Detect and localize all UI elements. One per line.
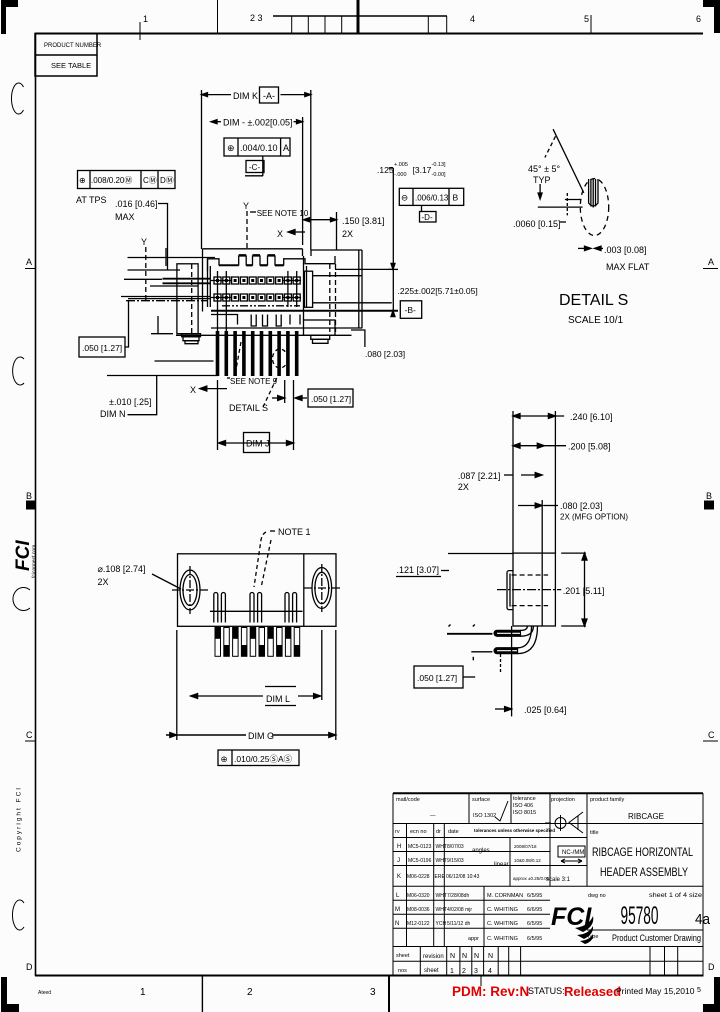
right key block [304, 271, 312, 307]
svg-text:WHT: WHT [436, 893, 447, 899]
right foot [304, 320, 336, 335]
svg-text:NC-/MM: NC-/MM [562, 850, 584, 856]
svg-text:C. WHITING: C. WHITING [487, 921, 518, 927]
svg-text:.080 [2.03]: .080 [2.03] [560, 501, 603, 511]
svg-text:MC5-0196: MC5-0196 [408, 858, 432, 864]
feature control frame .004/0.10 A [224, 138, 290, 156]
svg-text:dr: dr [436, 829, 441, 835]
left margin zone letters and ticks [26, 257, 33, 972]
phi .108 label [98, 564, 146, 587]
svg-text:C. WHITING: C. WHITING [487, 907, 518, 913]
svg-text:B: B [706, 491, 712, 501]
svg-text:.150 [3.81]: .150 [3.81] [342, 216, 385, 226]
svg-text:C: C [708, 730, 715, 740]
svg-text:SEE NOTE 9: SEE NOTE 9 [230, 377, 278, 386]
row 1 and row 2 squares [232, 277, 283, 301]
.087 dim [458, 471, 501, 492]
position frame below [218, 750, 299, 766]
svg-text:4a: 4a [695, 911, 711, 928]
dim L [176, 630, 178, 740]
.050 box lower [414, 666, 463, 688]
inner wall left double [207, 259, 209, 307]
svg-text:title: title [590, 830, 599, 836]
svg-text:06/12/08 10:43: 06/12/08 10:43 [446, 874, 480, 880]
svg-text:3: 3 [474, 968, 478, 975]
svg-text:1: 1 [140, 987, 146, 998]
svg-text:N: N [395, 921, 399, 927]
svg-text:ecn no: ecn no [410, 829, 427, 835]
svg-text:sheet: sheet [396, 953, 410, 959]
castellated top inner profile [208, 256, 336, 271]
board lock tab [507, 571, 513, 610]
svg-text:X: X [277, 229, 283, 239]
svg-text:fciconnect.com: fciconnect.com [32, 545, 38, 578]
through-hole pins below body [216, 331, 299, 376]
svg-text:N: N [450, 953, 455, 960]
svg-text:5/11/12 dh: 5/11/12 dh [447, 921, 470, 927]
svg-text:C: C [26, 730, 33, 740]
svg-text:revision: revision [423, 954, 444, 960]
svg-text:nos: nos [398, 968, 407, 974]
dim N [100, 397, 151, 419]
svg-text:WHT: WHT [436, 907, 447, 913]
svg-text:YCH: YCH [436, 921, 447, 927]
svg-text:MC5-0123: MC5-0123 [408, 844, 432, 850]
svg-text:-0.13]: -0.13] [432, 162, 447, 168]
svg-text:6/6/95: 6/6/95 [527, 907, 542, 913]
.050 pitch dim [284, 380, 286, 403]
mounting face line (datum B) [211, 310, 398, 312]
svg-text:projection: projection [551, 797, 575, 803]
svg-text:2X (MFG OPTION): 2X (MFG OPTION) [560, 513, 628, 522]
FCI logo in title block [551, 903, 593, 944]
.016 max note [115, 199, 158, 222]
svg-text:AT TPS: AT TPS [76, 195, 107, 205]
corner mark top-left [1, 0, 18, 34]
dim J [217, 380, 219, 450]
svg-text:8/07/03: 8/07/03 [447, 844, 464, 850]
svg-text:surface: surface [472, 797, 490, 803]
feature control frame .006/0.13 B [399, 188, 463, 205]
svg-text:DETAIL S: DETAIL S [229, 403, 268, 413]
svg-text:5: 5 [697, 987, 701, 994]
svg-text:SCALE 10/1: SCALE 10/1 [568, 315, 623, 326]
svg-text:A: A [26, 257, 32, 267]
left bottom L line [151, 316, 173, 334]
svg-text:tolerances unless otherwise sp: tolerances unless otherwise specified [474, 828, 555, 833]
contact slots [214, 593, 297, 623]
centerline left [126, 300, 208, 302]
svg-text:N: N [488, 953, 493, 960]
.080 mfg option dim [518, 505, 540, 507]
svg-text:DIM - ±.002[0.05]: DIM - ±.002[0.05] [223, 118, 292, 128]
svg-text:.050 [1.27]: .050 [1.27] [82, 343, 122, 353]
svg-text:Released: Released [564, 984, 621, 999]
datum A box [260, 87, 279, 103]
svg-text:ISO 8015: ISO 8015 [513, 810, 536, 816]
svg-text:5: 5 [584, 14, 589, 24]
svg-text:M06-0228: M06-0228 [407, 874, 430, 880]
svg-text:4: 4 [470, 14, 475, 24]
svg-text:2008/07/18: 2008/07/18 [514, 844, 537, 849]
body bottom line [176, 334, 352, 336]
dim G [335, 630, 337, 740]
shroud outline [203, 249, 363, 328]
svg-text:2X: 2X [458, 482, 469, 492]
svg-text:⊕: ⊕ [221, 754, 228, 764]
svg-text:RIBCAGE HORIZONTAL: RIBCAGE HORIZONTAL [592, 845, 693, 859]
svg-text:rv: rv [395, 829, 400, 835]
svg-text:.003 [0.08]: .003 [0.08] [604, 245, 647, 255]
extension lines above body [512, 411, 514, 553]
svg-text:.004/0.10: .004/0.10 [240, 143, 278, 153]
svg-text:WHT: WHT [436, 844, 447, 850]
punch hole ellipse 3 [13, 588, 30, 611]
copyright vertical text [16, 786, 23, 852]
corner mark top-right [703, 0, 720, 33]
datum D box [421, 205, 423, 211]
svg-text:MAX FLAT: MAX FLAT [606, 262, 650, 272]
svg-text:appr: appr [468, 936, 479, 942]
svg-text:.201 [5.11]: .201 [5.11] [563, 586, 605, 596]
bottom zone numbers [140, 987, 376, 998]
hidden lines right [329, 264, 331, 332]
svg-text:-A-: -A- [263, 91, 275, 101]
svg-text:D: D [708, 962, 715, 972]
bottom margin zone marks [202, 975, 481, 1012]
svg-text:matl/code: matl/code [396, 797, 420, 803]
svg-text:DIM J: DIM J [246, 439, 270, 449]
svg-text:PRODUCT NUMBER: PRODUCT NUMBER [44, 43, 102, 49]
svg-text:⊕: ⊕ [79, 176, 86, 185]
svg-text:1: 1 [450, 968, 454, 975]
svg-text:M12-0122: M12-0122 [407, 921, 430, 927]
svg-text:DⓂ: DⓂ [160, 176, 174, 185]
crosshair pins columns 1,2,9,10 [211, 271, 301, 331]
title block texts [395, 796, 711, 975]
bottom PDM status line [452, 984, 701, 999]
svg-text:ISO 406: ISO 406 [513, 803, 533, 809]
svg-text:A: A [283, 143, 289, 153]
.050 row offset boxed dim [79, 337, 125, 357]
svg-text:4: 4 [488, 968, 492, 975]
punch hole ellipse 2 [13, 357, 24, 385]
svg-text:.050 [1.27]: .050 [1.27] [417, 673, 457, 683]
svg-text:NOTE 1: NOTE 1 [278, 527, 311, 537]
svg-text:DIM G: DIM G [248, 731, 274, 741]
right margin zone letters and ticks [706, 257, 715, 972]
svg-text:6: 6 [696, 14, 701, 24]
datum B box [400, 301, 421, 319]
svg-text:-B-: -B- [405, 305, 417, 315]
svg-text:.080 [2.03]: .080 [2.03] [365, 349, 405, 359]
svg-text:sheet: sheet [424, 968, 439, 974]
svg-text:SEE NOTE 10: SEE NOTE 10 [257, 209, 309, 218]
true position frame at TPs [78, 171, 176, 189]
svg-text:.008/0.20Ⓜ: .008/0.20Ⓜ [91, 176, 132, 185]
svg-text:Product Customer Drawing: Product Customer Drawing [612, 933, 701, 943]
svg-text:-0.00]: -0.00] [432, 172, 447, 178]
mounting holes [180, 570, 200, 610]
.025 dim [511, 626, 513, 716]
svg-text:.125: .125 [377, 165, 394, 175]
svg-text:DETAIL S: DETAIL S [559, 292, 628, 309]
svg-text:SEE TABLE: SEE TABLE [51, 61, 91, 70]
svg-text:2X: 2X [342, 229, 353, 239]
svg-text:9/15/03: 9/15/03 [447, 858, 464, 864]
top margin ruler and zone marks [140, 0, 591, 40]
bent pins [494, 626, 537, 654]
svg-text:angles: angles [472, 848, 490, 854]
svg-text:STATUS:: STATUS: [528, 986, 565, 996]
svg-text:Printed May 15,2010: Printed May 15,2010 [616, 986, 695, 996]
middle centerline [222, 305, 300, 307]
svg-text:6/5/95: 6/5/95 [527, 936, 542, 942]
svg-text:D: D [26, 962, 33, 972]
svg-text:10&0.08/0.12: 10&0.08/0.12 [514, 858, 541, 863]
svg-text:.200 [5.08]: .200 [5.08] [568, 442, 611, 452]
.003 max flat [585, 246, 592, 250]
svg-text:2: 2 [247, 987, 253, 998]
.125 dimension with stacked tolerances [377, 162, 446, 178]
svg-text:4/02/08 mjr: 4/02/08 mjr [447, 907, 472, 913]
svg-text:DIM N: DIM N [100, 409, 126, 419]
svg-text:-C-: -C- [249, 163, 260, 172]
svg-text:.121 [3.07]: .121 [3.07] [397, 565, 440, 575]
dim K dimension [202, 90, 311, 250]
svg-text:Y: Y [243, 201, 249, 211]
svg-text:⊕: ⊕ [227, 143, 235, 153]
svg-text:95780: 95780 [621, 902, 659, 930]
svg-text:+.005: +.005 [394, 162, 408, 168]
svg-text:-.000: -.000 [394, 172, 407, 178]
top zone numbers [143, 13, 701, 24]
svg-text:.225±.002[5.71±0.05]: .225±.002[5.71±0.05] [398, 286, 478, 296]
top-left extension [448, 553, 513, 555]
bottom tab profile [211, 315, 300, 327]
svg-text:Y: Y [141, 237, 147, 247]
FCI side logo in left margin [13, 540, 38, 578]
svg-text:CⓂ: CⓂ [143, 176, 157, 185]
svg-text:scale 3:1: scale 3:1 [546, 877, 571, 883]
svg-text:3: 3 [370, 987, 376, 998]
surface checkmark [495, 801, 508, 821]
bottom pins checkered [215, 628, 300, 657]
svg-text:M08-0036: M08-0036 [407, 907, 430, 913]
dashed detail circle [580, 179, 608, 236]
svg-text:K: K [397, 874, 401, 880]
svg-text:Ateed: Ateed [38, 990, 51, 996]
svg-text:dwg no: dwg no [588, 893, 606, 899]
svg-text:RIBCAGE: RIBCAGE [628, 812, 664, 821]
pin field rows (front view) [211, 271, 301, 331]
svg-text:product family: product family [590, 797, 624, 803]
svg-text:sheet 1 of 4 size: sheet 1 of 4 size [649, 893, 703, 899]
svg-text:N: N [462, 953, 467, 960]
dim with tolerance [211, 117, 303, 245]
lower annotations of front view [100, 342, 353, 453]
svg-text:.006/0.13: .006/0.13 [415, 194, 449, 203]
bottom left notch lines [155, 360, 214, 362]
svg-text:7/28/08dh: 7/28/08dh [447, 893, 469, 899]
hidden line in latch [191, 264, 193, 334]
left extension lines [128, 257, 216, 259]
svg-text:J: J [397, 858, 400, 864]
corner mark bottom-left [1, 977, 19, 1012]
svg-text:6/5/95: 6/5/95 [527, 893, 542, 899]
svg-text:X: X [190, 385, 196, 395]
svg-text:ERE: ERE [435, 874, 446, 880]
svg-text:—: — [430, 813, 436, 819]
svg-text:H: H [397, 844, 401, 850]
svg-text:C. WHITING: C. WHITING [487, 936, 518, 942]
.240 dim [515, 415, 565, 417]
svg-text:.240 [6.10]: .240 [6.10] [570, 412, 613, 422]
NC-/MM cell box + arrow [558, 846, 585, 863]
svg-text:N: N [474, 953, 479, 960]
svg-text:.025 [0.64]: .025 [0.64] [524, 705, 567, 715]
product number table [35, 34, 97, 77]
svg-text:WHT: WHT [436, 858, 447, 864]
punch hole ellipse 1 [11, 83, 23, 114]
svg-text:TYP: TYP [533, 175, 551, 185]
svg-text:.0060 [0.15]: .0060 [0.15] [513, 219, 561, 229]
shroud horizontal inner lines right [313, 275, 362, 277]
pin extension lines [447, 633, 492, 635]
svg-text:2 3: 2 3 [250, 13, 263, 23]
svg-text:B: B [453, 193, 459, 203]
svg-text:approx ±0.25/0.05: approx ±0.25/0.05 [513, 876, 550, 881]
svg-text:[3.17: [3.17 [413, 165, 432, 175]
bottom rows verticals [419, 947, 421, 977]
svg-text:B: B [26, 491, 32, 501]
body outline [178, 554, 337, 627]
svg-text:2: 2 [462, 968, 466, 975]
svg-text:date: date [448, 829, 459, 835]
svg-text:HEADER ASSEMBLY: HEADER ASSEMBLY [600, 865, 688, 879]
.150 dimension [304, 212, 337, 250]
svg-text:-D-: -D- [422, 213, 433, 222]
svg-text:PDM: Rev:N: PDM: Rev:N [452, 984, 529, 999]
svg-text:DIM L: DIM L [266, 694, 290, 704]
left latch block [177, 264, 201, 344]
border frame [35, 33, 703, 35]
svg-text:1: 1 [143, 14, 148, 24]
corner mark bottom-right [703, 977, 720, 1012]
svg-text:.010/0.25ⓈAⓈ: .010/0.25ⓈAⓈ [234, 754, 293, 764]
.201 right dim [561, 552, 586, 554]
inner wall right double [303, 256, 305, 320]
svg-text:6/5/95: 6/5/95 [527, 921, 542, 927]
svg-text:M: M [395, 907, 400, 913]
datum C box [246, 161, 264, 173]
vertical dividers upper [468, 793, 470, 823]
svg-text:DIM K: DIM K [233, 91, 258, 101]
.200 dim [515, 445, 566, 447]
svg-text:MAX: MAX [115, 212, 135, 222]
mating face lines left [124, 278, 162, 280]
body [513, 553, 555, 626]
TITLE BLOCK [393, 793, 703, 976]
svg-text:M06-0320: M06-0320 [407, 893, 430, 899]
svg-text:ISO 1302: ISO 1302 [473, 813, 496, 819]
svg-text:A: A [708, 257, 714, 267]
svg-text:⊖: ⊖ [401, 193, 408, 203]
pin tip hatched [589, 179, 598, 208]
svg-text:2X: 2X [98, 577, 109, 587]
revision table verticals [406, 824, 408, 947]
punch hole ellipse 4 [12, 900, 24, 930]
projection symbol [545, 812, 583, 833]
svg-text:M. CORNMAN: M. CORNMAN [487, 893, 523, 899]
svg-text:tolerance: tolerance [513, 796, 536, 802]
svg-text:⌀.108 [2.74]: ⌀.108 [2.74] [98, 564, 146, 574]
svg-text:.087 [2.21]: .087 [2.21] [458, 471, 501, 481]
svg-text:±.010 [.25]: ±.010 [.25] [109, 397, 151, 407]
svg-text:.016 [0.46]: .016 [0.46] [115, 199, 158, 209]
svg-text:.050 [1.27]: .050 [1.27] [311, 394, 351, 404]
svg-text:Copyright FCI: Copyright FCI [16, 786, 23, 852]
svg-text:45° ± 5°: 45° ± 5° [528, 164, 561, 174]
svg-text:linear: linear [494, 862, 509, 868]
